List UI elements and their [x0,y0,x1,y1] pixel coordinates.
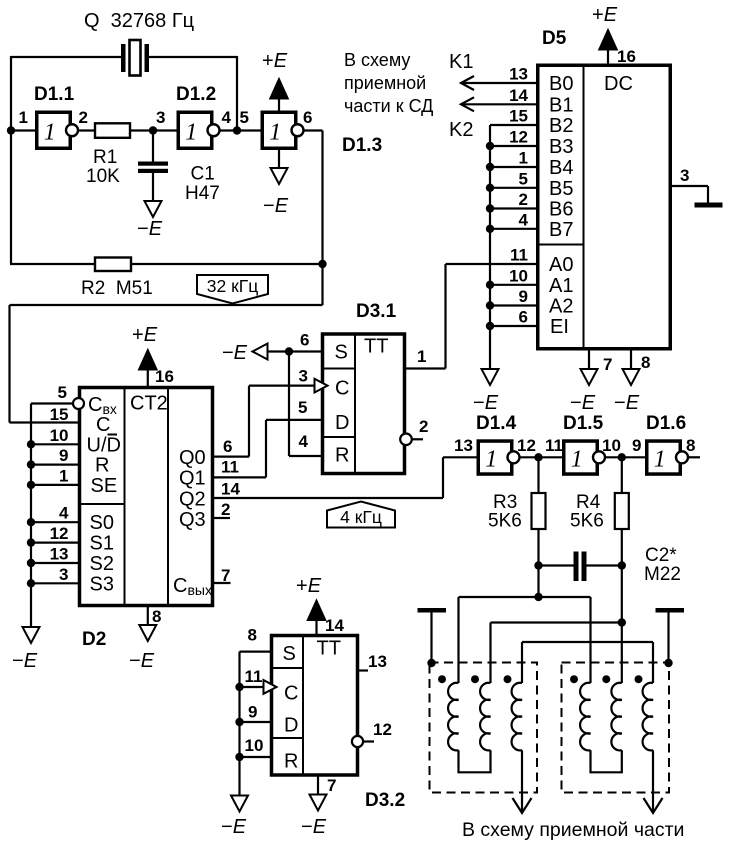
T2 winding 2 phase dot [602,675,610,683]
T1 winding 3 phase dot [504,675,512,683]
svg-text:−E: −E [263,195,289,217]
power -E arrow below C1 [145,201,162,217]
svg-text:D1.3: D1.3 [342,135,382,156]
transformer T1 winding 2 [480,683,490,751]
flag label 4 кГц [327,502,395,528]
svg-text:1: 1 [185,119,197,145]
svg-text:11: 11 [510,246,528,265]
wire D1.4 out to D1.5 [520,456,565,458]
svg-text:7: 7 [603,355,612,374]
svg-text:+E: +E [296,575,322,597]
svg-text:D1.6: D1.6 [646,413,686,434]
svg-text:2: 2 [419,417,428,436]
wire D1.3 output down to R2 node [304,129,323,131]
wire node1 to D1.1 input [11,129,36,131]
T1 winding 1 phase dot [438,675,446,683]
svg-text:8: 8 [248,626,257,645]
ground bar for T1 shield [418,608,447,613]
transformer T1 winding 1 [448,683,458,751]
svg-text:DC: DC [604,73,633,95]
D2 -E bus vertical [30,404,32,628]
wire D2 pin 3 to -E bus [31,582,78,584]
wire D1.5 out to D1.6 [605,456,647,458]
svg-text:10: 10 [509,266,528,285]
transformer T2 shield (dashed) [562,663,670,793]
svg-text:1: 1 [654,446,666,472]
svg-text:16: 16 [617,47,636,66]
svg-text:1: 1 [269,119,281,145]
svg-text:12: 12 [373,720,392,739]
svg-text:8: 8 [641,353,650,372]
svg-text:9: 9 [59,446,68,465]
wire D5 pin 3 to ground [670,185,709,187]
wire D5 pin 9 (A2) to bus [490,304,537,306]
wire secondary link w3-w3 [522,641,653,643]
svg-text:D3.1: D3.1 [356,301,397,322]
svg-text:15: 15 [50,405,69,424]
wire D5 pin 2 (B6) to bus [490,207,537,209]
wire 32 kHz net to D2 pin 15 [321,264,323,305]
junction node 3 [149,126,157,134]
resistor R4 5K6 [621,457,623,493]
junction S/R tie [285,347,293,355]
svg-text:TT: TT [317,638,341,660]
junction on R2 line [318,260,326,268]
svg-text:12: 12 [517,436,536,455]
svg-text:13: 13 [509,65,528,84]
svg-text:R: R [95,455,109,477]
svg-text:+E: +E [592,4,618,26]
svg-text:B6: B6 [549,199,573,221]
svg-text:5: 5 [58,383,67,402]
svg-text:3: 3 [680,166,689,185]
wire D2 Q3 (pin 2) stub [214,517,230,519]
svg-text:A2: A2 [549,296,573,318]
svg-text:TT: TT [364,336,388,358]
svg-text:C: C [335,378,349,400]
svg-text:K1: K1 [449,51,473,73]
inverter D1.5 [564,441,598,474]
wire D3.2 pin 12 stub [364,740,375,742]
svg-text:−E: −E [570,392,596,414]
svg-text:D2: D2 [82,629,106,650]
svg-text:8: 8 [152,607,161,626]
svg-text:10: 10 [602,436,621,455]
svg-text:4: 4 [519,210,529,229]
inversion bubble D2 Свх [73,398,84,409]
svg-text:11: 11 [545,436,563,455]
svg-text:9: 9 [519,287,528,306]
svg-text:13: 13 [50,545,69,564]
inverter D1.6 [647,441,681,474]
capacitor C2* M22 [534,561,542,569]
wire D5 pin 6 (EI) to bus [490,325,537,327]
K2 bus vertical to -E [489,125,491,369]
D3.2 -E bus vertical [238,652,240,796]
svg-text:CT2: CT2 [130,393,168,415]
flip-flop D3.1 [323,334,405,474]
svg-text:U/D: U/D [87,435,121,457]
power -E pin 8 of D2 [147,606,149,625]
wire D1.2 out to D1.3 input [220,129,262,131]
wire D1.1 out to R1 [78,129,95,131]
svg-text:SE: SE [91,475,118,497]
svg-text:12: 12 [509,128,528,147]
svg-text:A0: A0 [549,254,573,276]
wire T1 secondary output [521,750,523,813]
svg-text:D1.4: D1.4 [476,413,517,434]
wire R2 to node 6 rail [131,263,323,265]
svg-text:5K6: 5K6 [570,511,604,532]
wire D5 pin 12 (B3) to bus [490,145,537,147]
svg-text:7: 7 [221,566,230,585]
svg-text:14: 14 [221,480,240,499]
svg-text:Q1: Q1 [179,468,206,490]
wire D5 pin 4 (B7) to bus [490,228,537,230]
svg-text:S1: S1 [90,533,114,555]
wire D2 Q0 (pin 6) to D3.1 C (pin 3) [214,456,249,458]
svg-text:C2*: C2* [645,545,677,566]
inverter D1.4 [478,441,512,474]
svg-text:5: 5 [519,169,528,188]
wire R4 node to primaries w2 [621,566,623,623]
svg-text:−E: −E [473,392,499,414]
wire D1.6 output stub [688,456,700,458]
wire D2 pin 13 to -E bus [31,562,78,564]
inverter D1.1 [37,112,71,148]
svg-text:−E: −E [301,816,327,838]
junction node 5 [233,126,241,134]
svg-text:1: 1 [44,119,56,145]
svg-text:K2: K2 [449,119,473,141]
svg-text:R: R [335,445,349,467]
svg-text:4: 4 [299,432,309,451]
transformer T2 winding 2 [611,683,621,751]
wire D3.2 D (pin 9) to bus [240,721,271,723]
wire K1 to D5 pin 14 (B1) [461,103,537,105]
svg-text:−E: −E [222,342,248,364]
wire D2 pin 9 to -E bus [31,464,78,466]
svg-text:D1.5: D1.5 [563,413,604,434]
svg-text:6: 6 [519,308,528,327]
wire R3 node to primaries w1 [537,566,539,598]
svg-text:C: C [284,683,298,705]
svg-text:10K: 10K [86,166,120,187]
wire D3.1 pin 2 stub [412,438,423,440]
svg-text:12: 12 [50,524,69,543]
svg-text:3: 3 [59,565,68,584]
svg-text:R1: R1 [93,147,117,168]
inversion bubble D3.1 pin 2 output [400,434,412,446]
dynamic input triangle D3.1 C [315,379,328,393]
svg-text:B0: B0 [549,73,573,95]
svg-text:B5: B5 [549,178,573,200]
svg-text:B4: B4 [549,157,573,179]
transformer T2 winding 3 (secondary) [643,683,653,751]
power -E arrow below D1.3 [278,149,280,169]
wire K1 to D5 pin 13 (B0) [461,82,537,84]
svg-text:D: D [335,412,349,434]
transformer T1 winding 3 (secondary) [512,683,522,751]
wire D3.1 S (pin 6) to -E [253,350,322,352]
svg-text:3: 3 [299,367,308,386]
svg-text:Q2: Q2 [179,488,206,510]
svg-text:13: 13 [454,436,473,455]
svg-text:R2 M51: R2 M51 [81,278,153,299]
svg-text:4: 4 [59,504,69,523]
power -E arrow left (D3.1 S) [253,344,268,360]
svg-text:2: 2 [519,190,528,209]
svg-text:6: 6 [300,331,309,350]
dynamic input triangle D3.2 C [264,680,277,694]
junction R3 node [534,453,542,461]
svg-text:3: 3 [156,108,165,127]
svg-text:1: 1 [571,446,583,472]
power -E arrow bottom of D2 bus [23,627,40,643]
svg-text:8: 8 [686,436,695,455]
svg-text:M22: M22 [644,564,681,585]
svg-text:Q3: Q3 [179,509,206,531]
ground bar for T2 shield [656,608,685,613]
wire S junction down to R (pin 4) [288,352,290,457]
svg-text:4 кГц: 4 кГц [340,507,382,527]
svg-text:D5: D5 [542,28,567,49]
svg-text:9: 9 [248,703,257,722]
wire D2 pin 12 to -E bus [31,541,78,543]
svg-text:D1.2: D1.2 [176,84,216,105]
svg-text:D3.2: D3.2 [365,790,405,811]
svg-text:+E: +E [262,50,288,72]
svg-text:2: 2 [79,108,88,127]
wire D2 pin 4 to -E bus [31,521,78,523]
inverter D1.3 [262,112,296,148]
svg-text:6: 6 [223,437,232,456]
svg-text:S0: S0 [90,512,114,534]
inverter D1.2 [178,112,212,148]
svg-text:2: 2 [221,500,230,519]
svg-text:9: 9 [632,436,641,455]
flip-flop D3.2 [272,636,358,776]
svg-text:B2: B2 [549,115,573,137]
T2 winding 1 phase dot [570,675,578,683]
svg-text:C: C [96,414,110,436]
decoder D5 [538,65,671,349]
power -E arrow bottom of K2 bus [482,369,499,385]
wire D5 pin 10 (A1) to bus [490,284,537,286]
wire D3.2 R (pin 10) to bus [240,756,271,758]
svg-text:приемной: приемной [344,73,426,93]
T2 winding 3 phase dot [635,675,643,683]
svg-text:6: 6 [303,108,312,127]
svg-text:−E: −E [12,650,38,672]
svg-text:B1: B1 [549,94,573,116]
svg-text:32 кГц: 32 кГц [207,276,258,296]
inversion bubble D3.2 pin 12 [352,736,363,747]
crystal Q 32768 Гц [121,44,126,72]
svg-text:−E: −E [614,392,640,414]
power -E arrow bottom of D3.2 bus [231,796,248,812]
svg-text:C1: C1 [191,164,215,185]
svg-text:−E: −E [137,218,163,240]
svg-text:5: 5 [298,398,307,417]
wire D2 Q1 (pin 11) to D3.1 D (pin 5) [214,476,266,478]
wire D2 Q2 (pin 14) to D1.4 (pin 13) [214,497,443,499]
svg-text:10: 10 [245,736,264,755]
svg-text:11: 11 [245,667,263,686]
power -E pin 7 of D5 [588,349,590,369]
svg-text:15: 15 [509,107,528,126]
wire D3.1 pin 1 to D5 pin 11 (A0) [406,367,446,369]
wire D5 pin 5 (B5) to bus [490,187,537,189]
svg-text:H47: H47 [185,183,220,204]
svg-text:D: D [284,715,298,737]
svg-text:13: 13 [368,652,387,671]
power -E pin 8 of D5 [630,349,632,369]
svg-text:Q 32768 Гц: Q 32768 Гц [84,10,194,32]
svg-text:A1: A1 [549,275,573,297]
wire D3.2 C (pin 11) to bus [240,686,264,688]
svg-text:S: S [335,342,348,364]
svg-text:14: 14 [509,86,528,105]
svg-text:1: 1 [59,466,68,485]
svg-text:10: 10 [50,426,69,445]
wire D3.2 S (pin 8) to -E bus [240,650,271,652]
T1 winding 2 phase dot [471,675,479,683]
svg-text:Cвых: Cвых [173,575,212,598]
svg-text:S: S [283,643,296,665]
svg-text:1: 1 [485,446,497,472]
svg-text:S3: S3 [90,574,114,596]
svg-text:1: 1 [417,347,426,366]
svg-text:B7: B7 [549,219,573,241]
svg-text:16: 16 [155,367,174,386]
svg-text:В схему приемной части: В схему приемной части [462,819,684,841]
svg-text:B3: B3 [549,136,573,158]
wire D3.2 pin 13 stub [358,669,369,671]
svg-text:S2: S2 [90,553,114,575]
wire crystal to node 5 [149,56,237,58]
svg-text:EI: EI [550,316,569,338]
resistor R1 10K [95,123,130,138]
svg-text:В схему: В схему [344,50,410,70]
wire D2 pin 5 (Свх) to -E bus [31,402,73,404]
svg-text:части к СД: части к СД [344,96,433,116]
wire left rail to R2 [10,131,12,265]
svg-text:14: 14 [325,616,344,635]
svg-text:D1.1: D1.1 [34,84,75,105]
transformer T1 shield (dashed) [430,663,538,793]
wire D2 pin 1 to -E bus [31,484,78,486]
oscillator top wire: node1 to crystal [11,56,121,58]
svg-text:7: 7 [327,776,336,795]
wire B2 (pin 15) to K2 bus [490,124,537,126]
svg-text:11: 11 [221,458,239,477]
svg-text:−E: −E [221,816,247,838]
junction node 1 [7,126,15,134]
wire T2 primary bottoms joined [591,750,622,772]
counter D2 [80,388,213,606]
svg-text:5: 5 [240,108,249,127]
svg-text:5K6: 5K6 [488,511,522,532]
capacitor C1 H47 [152,131,154,162]
power -E pin 7 of D3.2 [317,776,319,795]
ground symbol (pin 3) [695,203,723,208]
resistor R3 5K6 [537,457,539,493]
wire T1 primary bottoms joined [459,750,491,772]
transformer T2 winding 1 [580,683,590,751]
wire T2 secondary output [652,750,654,813]
svg-text:−E: −E [129,650,155,672]
flag label 32 кГц [197,275,268,304]
wire R1 to node 3 to D1.2 [130,129,178,131]
resistor R2 M51 [95,258,131,272]
wire D2 Свых (pin 7) stub [214,582,231,584]
wire D5 pin 1 (B4) to bus [490,166,537,168]
svg-text:1: 1 [519,149,528,168]
svg-text:4: 4 [222,108,232,127]
svg-text:Q0: Q0 [179,447,206,469]
svg-text:R: R [284,751,298,773]
wire D2 pin 10 to -E bus [31,443,78,445]
junction R4 node [618,453,626,461]
svg-text:+E: +E [132,324,158,346]
svg-text:1: 1 [19,108,28,127]
